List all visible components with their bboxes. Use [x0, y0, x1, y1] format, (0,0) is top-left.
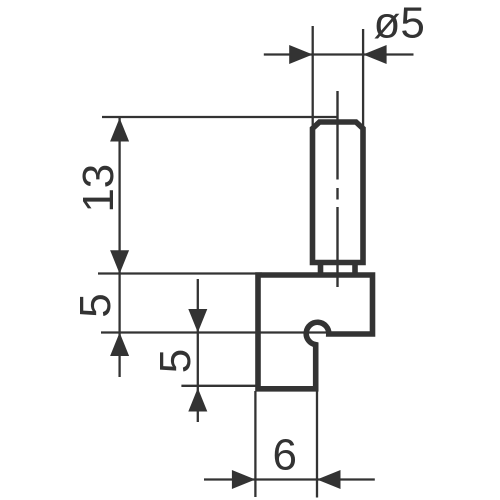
extension line 13 top [102, 116, 339, 118]
dimension line 5 second vertical [197, 279, 199, 422]
arrow 5 first bottom [110, 333, 129, 357]
neck left line [318, 263, 324, 278]
svg-text:5: 5 [151, 349, 200, 373]
extension line dia5 left [312, 26, 314, 130]
extension line step [101, 331, 329, 333]
dimension line dia5 [264, 53, 414, 55]
dimension line 13/5 vertical left [118, 118, 120, 377]
pin outline with chamfered top [313, 122, 364, 263]
dimension line 6 [204, 478, 375, 480]
extension line 6 left [254, 391, 256, 497]
svg-text:13: 13 [74, 164, 123, 213]
svg-text:5: 5 [71, 293, 120, 317]
extension line body bottom [181, 385, 258, 387]
svg-text:6: 6 [273, 431, 297, 480]
arrow 5 second bottom [188, 388, 207, 412]
body outline with relief notch [258, 275, 373, 389]
neck right line [352, 263, 358, 278]
arrow dia5 left [289, 45, 313, 64]
extension line body top [98, 272, 262, 274]
arrow 13 bottom / 5 top [110, 250, 129, 274]
arrow dia5 right [363, 45, 387, 64]
arrow 5 second top [188, 309, 207, 333]
extension line dia5 right [362, 29, 364, 130]
arrow 6 left [232, 470, 256, 489]
centerline of pin (dash-dot) [336, 91, 338, 287]
extension line 6 right [316, 391, 318, 498]
arrow 6 right [317, 470, 341, 489]
arrow 13 top [110, 118, 129, 142]
svg-text:ø5: ø5 [374, 0, 425, 48]
